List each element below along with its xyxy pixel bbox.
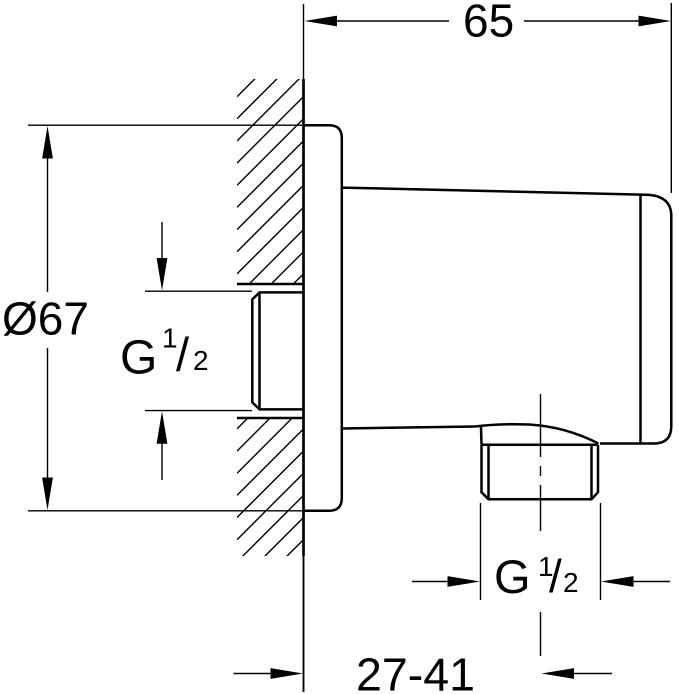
svg-text:2: 2 — [563, 567, 579, 598]
outlet G1/2 left arrow — [448, 576, 481, 587]
inlet thread G1/2 — [252, 292, 303, 409]
svg-text:2: 2 — [193, 345, 209, 376]
outlet G1/2 extension lines — [481, 503, 601, 600]
svg-text:/: / — [176, 328, 190, 381]
outlet boss left edge — [480, 427, 483, 445]
inlet G1/2 dimension lines — [145, 222, 252, 480]
dimension 27-41 tails — [234, 673, 613, 675]
outlet G1/2 right arrow — [601, 576, 634, 587]
dimension D67 top arrow — [42, 126, 53, 159]
dimension D67 line — [47, 157, 49, 480]
flange (escutcheon) — [304, 125, 342, 511]
dimension 27-41 right arrow — [542, 668, 575, 679]
svg-text:27-41: 27-41 — [356, 649, 475, 694]
body end cap line — [639, 195, 642, 444]
outlet centerline — [540, 394, 542, 656]
wall face line — [303, 4, 305, 692]
wall hatching — [237, 30, 304, 629]
svg-text:65: 65 — [463, 0, 514, 47]
dimension 65 left arrow — [305, 16, 338, 27]
dimension 27-41 left arrow — [271, 668, 304, 679]
wall hole top edge — [237, 283, 304, 286]
dimension 65 right arrow — [639, 16, 672, 27]
svg-text:G: G — [120, 332, 157, 385]
outlet boss curve — [475, 424, 599, 443]
svg-text:/: / — [549, 550, 562, 602]
inlet G1/2 text — [120, 323, 209, 385]
wall hole bottom edge — [237, 417, 304, 420]
dimension D67 bottom arrow — [42, 478, 53, 511]
inlet G1/2 bottom arrow — [157, 411, 168, 444]
dimension D67 extension lines — [28, 125, 308, 511]
body (cylinder) — [342, 188, 672, 444]
outlet G1/2 text — [494, 550, 579, 603]
outlet thread G1/2 — [482, 445, 599, 500]
inlet G1/2 top arrow — [157, 258, 168, 291]
dimension 65 line — [336, 3, 671, 193]
svg-text:G: G — [494, 550, 531, 603]
svg-text:Ø67: Ø67 — [2, 293, 89, 345]
outlet G1/2 dimension tails — [412, 581, 670, 583]
